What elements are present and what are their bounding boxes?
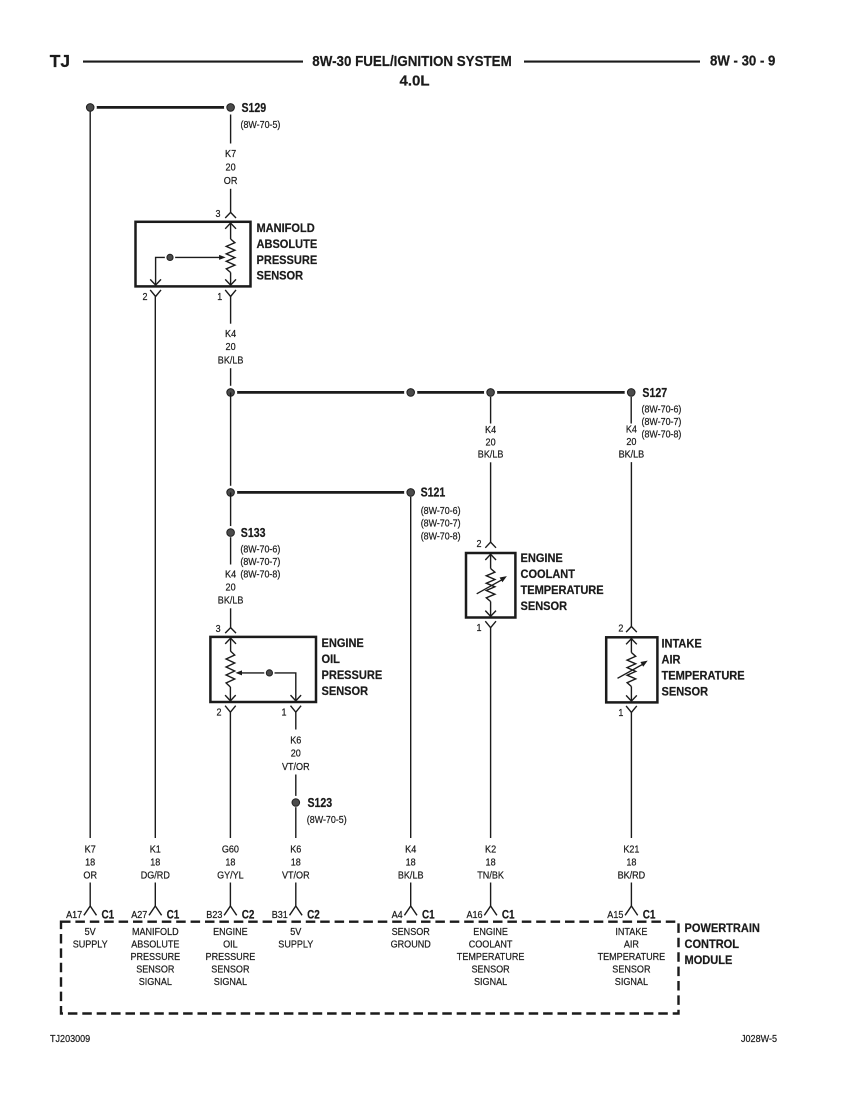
svg-text:(8W-70-8): (8W-70-8) — [421, 531, 461, 542]
svg-text:20: 20 — [226, 162, 236, 173]
svg-text:PRESSURE: PRESSURE — [130, 952, 180, 963]
svg-text:C2: C2 — [242, 907, 255, 921]
svg-text:20: 20 — [226, 583, 236, 594]
pin 2 connector symbol at ECT — [485, 542, 496, 548]
junction dot on EOP wiper — [264, 668, 274, 678]
svg-text:SENSOR: SENSOR — [211, 964, 249, 975]
svg-text:TEMPERATURE: TEMPERATURE — [598, 952, 666, 963]
svg-text:C1: C1 — [422, 907, 435, 921]
svg-text:C1: C1 — [167, 907, 180, 921]
svg-text:INTAKE: INTAKE — [615, 927, 647, 938]
PCM pin A27 C1 — [154, 883, 156, 907]
resistor (potentiometer) inside MAP — [226, 239, 235, 273]
header: left rule — [83, 61, 303, 63]
wire: S127 bus line — [231, 391, 632, 394]
svg-text:A15: A15 — [607, 910, 623, 921]
svg-text:2: 2 — [217, 708, 222, 719]
MAP pin 3 inner chevron — [225, 223, 236, 229]
svg-text:18: 18 — [626, 858, 636, 869]
svg-text:OR: OR — [83, 871, 97, 882]
IAT internal wire pin2 to thermistor — [630, 639, 632, 653]
svg-text:TEMPERATURE: TEMPERATURE — [457, 952, 525, 963]
svg-text:K4: K4 — [626, 425, 637, 436]
svg-text:18: 18 — [291, 858, 301, 869]
svg-text:VT/OR: VT/OR — [282, 871, 310, 882]
PCM pin A17 C1 — [89, 883, 91, 907]
svg-text:(8W-70-7): (8W-70-7) — [421, 519, 461, 530]
svg-text:PRESSURE: PRESSURE — [257, 253, 318, 267]
svg-text:SIGNAL: SIGNAL — [615, 977, 648, 988]
svg-text:C1: C1 — [643, 907, 656, 921]
svg-text:8W - 30 - 9: 8W - 30 - 9 — [710, 54, 775, 70]
node: left end of S129 bus — [84, 101, 97, 114]
PCM pin A4 C1 — [410, 883, 412, 907]
svg-text:GROUND: GROUND — [391, 940, 431, 951]
junction dot on MAP wiper — [165, 252, 175, 262]
svg-text:S123: S123 — [308, 796, 333, 810]
svg-text:(8W-70-7): (8W-70-7) — [240, 557, 280, 568]
svg-text:(8W-70-5): (8W-70-5) — [241, 120, 281, 131]
wire K4 20 BK/LB: MAP pin 1 down to S127 — [230, 297, 232, 324]
MAP pin1 inner chevron — [225, 279, 236, 285]
svg-text:COOLANT: COOLANT — [521, 567, 576, 581]
pin 3 connector symbol at EOP — [225, 628, 236, 634]
ECT pin 2 inner chevron — [485, 554, 496, 560]
svg-text:ABSOLUTE: ABSOLUTE — [131, 940, 179, 951]
svg-text:G60: G60 — [222, 845, 239, 856]
MAP pin 2 outer connector — [150, 290, 161, 297]
splice S121 — [404, 486, 417, 499]
MAP sensor box: manifold absolute pressure sensor — [136, 222, 251, 287]
svg-text:OIL: OIL — [322, 652, 341, 666]
splice S127 — [625, 386, 638, 399]
svg-text:BK/LB: BK/LB — [218, 596, 244, 607]
svg-text:INTAKE: INTAKE — [662, 636, 702, 650]
svg-text:3: 3 — [216, 209, 221, 220]
EOP internal wire resistor to pin2 — [229, 687, 231, 701]
svg-text:1: 1 — [618, 708, 623, 719]
svg-text:20: 20 — [226, 342, 236, 353]
wire: S121 to S133 — [230, 492, 232, 528]
svg-text:A4: A4 — [392, 910, 403, 921]
EOP internal wire pin3 to resistor — [230, 638, 232, 651]
wire K4 18 BK/LB: S121 down to PCM A4 — [410, 497, 412, 838]
node: junction S121 bus left — [224, 486, 237, 499]
svg-text:K7: K7 — [85, 845, 96, 856]
PCM pin A15 C1 — [630, 883, 632, 907]
svg-text:K4: K4 — [225, 570, 236, 581]
svg-text:SENSOR: SENSOR — [612, 964, 650, 975]
svg-text:BK/LB: BK/LB — [478, 450, 504, 461]
ECT pin 1 outer connector — [485, 621, 496, 628]
svg-text:18: 18 — [150, 858, 160, 869]
svg-text:POWERTRAIN: POWERTRAIN — [685, 921, 760, 935]
svg-text:ENGINE: ENGINE — [521, 551, 563, 565]
svg-text:J028W-5: J028W-5 — [741, 1034, 777, 1045]
svg-text:BK/LB: BK/LB — [218, 355, 244, 366]
MAP pin2 inner chevron — [150, 279, 161, 285]
svg-text:GY/YL: GY/YL — [217, 871, 244, 882]
PCM pin B31 C2 — [295, 883, 297, 907]
svg-text:SENSOR: SENSOR — [322, 684, 369, 698]
thermistor inside ECT — [486, 569, 495, 602]
svg-text:BK/RD: BK/RD — [618, 871, 646, 882]
wire K4 20 BK/LB: S127 to S121 — [230, 392, 232, 492]
wire K6: S123 down — [295, 807, 297, 838]
svg-text:(8W-70-8): (8W-70-8) — [642, 429, 682, 440]
svg-text:B23: B23 — [206, 910, 222, 921]
svg-text:S127: S127 — [642, 386, 667, 400]
svg-text:MODULE: MODULE — [685, 953, 733, 967]
svg-text:(8W-70-8): (8W-70-8) — [240, 570, 280, 581]
svg-text:C1: C1 — [502, 907, 515, 921]
wire K6 20 VT/OR: EOP pin 1 to S123 — [295, 712, 297, 729]
svg-text:AIR: AIR — [662, 652, 681, 666]
svg-text:20: 20 — [291, 749, 301, 760]
svg-text:2: 2 — [618, 623, 623, 634]
svg-text:18: 18 — [225, 858, 235, 869]
svg-text:8W-30 FUEL/IGNITION SYSTEM: 8W-30 FUEL/IGNITION SYSTEM — [312, 54, 511, 70]
svg-text:CONTROL: CONTROL — [685, 937, 740, 951]
node: junction S127 bus at ECT wire — [484, 386, 497, 399]
svg-text:SENSOR: SENSOR — [257, 269, 304, 283]
svg-text:C2: C2 — [307, 907, 320, 921]
svg-text:A27: A27 — [131, 910, 147, 921]
svg-text:20: 20 — [486, 437, 496, 448]
svg-text:S129: S129 — [242, 101, 267, 115]
svg-text:SIGNAL: SIGNAL — [474, 977, 507, 988]
svg-text:1: 1 — [477, 623, 482, 634]
wire: S129 bus line — [90, 106, 230, 109]
svg-text:A16: A16 — [467, 910, 483, 921]
pin 2 connector symbol at IAT — [626, 627, 637, 633]
svg-text:AIR: AIR — [624, 940, 639, 951]
MAP internal wire resistor to pin1 — [230, 273, 232, 286]
ECT internal wire thermistor to pin1 — [490, 602, 492, 617]
svg-text:TEMPERATURE: TEMPERATURE — [521, 583, 604, 597]
EOP pin 1 outer connector — [291, 706, 302, 713]
EOP wiper arrowhead — [235, 670, 242, 675]
splice S123 — [289, 796, 302, 809]
svg-text:DG/RD: DG/RD — [141, 871, 170, 882]
svg-text:K6: K6 — [290, 736, 301, 747]
svg-text:BK/LB: BK/LB — [619, 449, 645, 460]
MAP internal wire pin3 to resistor — [230, 223, 232, 239]
svg-text:PRESSURE: PRESSURE — [206, 952, 256, 963]
svg-text:MANIFOLD: MANIFOLD — [132, 927, 179, 938]
svg-text:SENSOR: SENSOR — [472, 964, 510, 975]
ECT sensor box: engine coolant temperature sensor — [466, 553, 515, 618]
EOP wiper line to pin 1 — [242, 673, 296, 701]
MAP pin 1 outer connector — [225, 290, 236, 297]
IAT pin 2 inner chevron — [626, 639, 637, 645]
EOP pin1 inner chevron — [291, 695, 302, 701]
pin 3 connector symbol at MAP — [225, 212, 236, 218]
IAT sensor box: intake air temperature sensor — [606, 637, 657, 702]
wire K4 20 BK/LB: S127 to IAT pin 2 — [630, 397, 632, 424]
svg-text:2: 2 — [143, 292, 148, 303]
svg-text:1: 1 — [282, 708, 287, 719]
EOP pin 3 inner chevron — [225, 638, 236, 644]
wire K2 18 TN/BK: ECT pin 1 down to PCM A16 — [490, 628, 492, 838]
wire K4 20 BK/LB: S127 to ECT pin 2 — [490, 397, 492, 424]
svg-text:18: 18 — [85, 858, 95, 869]
resistor (potentiometer) inside EOP — [226, 651, 235, 687]
svg-text:K4: K4 — [485, 425, 496, 436]
svg-text:VT/OR: VT/OR — [282, 762, 310, 773]
svg-text:SENSOR: SENSOR — [136, 964, 174, 975]
svg-text:K4: K4 — [405, 845, 416, 856]
svg-text:BK/LB: BK/LB — [398, 871, 424, 882]
svg-text:SIGNAL: SIGNAL — [139, 977, 172, 988]
svg-text:K2: K2 — [485, 845, 496, 856]
svg-text:ENGINE: ENGINE — [322, 636, 364, 650]
wire: S121 bus line — [231, 491, 411, 494]
svg-text:SENSOR: SENSOR — [392, 927, 430, 938]
svg-text:18: 18 — [486, 858, 496, 869]
splice S129 — [224, 101, 237, 114]
wire G60 18 GY/YL: EOP pin 2 down to PCM B23 — [229, 712, 231, 838]
svg-text:B31: B31 — [272, 910, 288, 921]
svg-text:4.0L: 4.0L — [399, 73, 429, 90]
node: junction S127 bus at K4 wire — [224, 386, 237, 399]
wire K21 18 BK/RD: IAT pin 1 down to PCM A15 — [630, 712, 632, 838]
svg-text:SUPPLY: SUPPLY — [278, 940, 313, 951]
svg-text:SUPPLY: SUPPLY — [73, 940, 108, 951]
svg-text:K1: K1 — [150, 845, 161, 856]
IAT internal wire thermistor to pin1 — [630, 687, 632, 702]
svg-text:3: 3 — [216, 624, 221, 635]
svg-text:K21: K21 — [623, 845, 639, 856]
svg-text:TN/BK: TN/BK — [477, 871, 504, 882]
MAP wiper line to pin 2 — [156, 257, 220, 285]
thermistor inside IAT — [627, 653, 636, 687]
PCM pin A16 C1 — [490, 883, 492, 907]
svg-text:A17: A17 — [66, 910, 82, 921]
svg-text:TJ203009: TJ203009 — [50, 1034, 90, 1045]
svg-text:K4: K4 — [225, 329, 236, 340]
EOP pin 2 outer connector — [225, 706, 236, 713]
svg-text:5V: 5V — [290, 927, 301, 938]
svg-text:SIGNAL: SIGNAL — [214, 977, 247, 988]
svg-text:5V: 5V — [85, 927, 96, 938]
wire K1 18 DG/RD: MAP pin 2 down to PCM A27 — [154, 297, 156, 839]
svg-text:18: 18 — [406, 858, 416, 869]
svg-text:OIL: OIL — [223, 940, 238, 951]
IAT pin 1 outer connector — [626, 706, 637, 713]
svg-text:C1: C1 — [102, 907, 115, 921]
ECT internal wire pin2 to thermistor — [490, 554, 492, 568]
svg-text:MANIFOLD: MANIFOLD — [257, 221, 315, 235]
IAT thermistor arrow — [618, 664, 644, 679]
svg-text:TJ: TJ — [50, 51, 70, 71]
svg-text:(8W-70-6): (8W-70-6) — [240, 545, 280, 556]
svg-text:PRESSURE: PRESSURE — [322, 668, 383, 682]
svg-text:(8W-70-6): (8W-70-6) — [642, 405, 682, 416]
wire K7 18 OR: S129 down to PCM A17 — [89, 112, 91, 839]
svg-text:K7: K7 — [225, 149, 236, 160]
svg-text:SENSOR: SENSOR — [521, 599, 568, 613]
svg-text:20: 20 — [626, 437, 636, 448]
svg-text:TEMPERATURE: TEMPERATURE — [662, 669, 745, 683]
svg-text:S121: S121 — [421, 485, 446, 499]
svg-text:K6: K6 — [290, 845, 301, 856]
svg-text:COOLANT: COOLANT — [469, 940, 513, 951]
svg-text:1: 1 — [217, 292, 222, 303]
svg-text:S133: S133 — [241, 526, 266, 540]
PCM pin B23 C2 — [229, 883, 231, 907]
svg-text:SENSOR: SENSOR — [662, 685, 709, 699]
svg-text:(8W-70-7): (8W-70-7) — [642, 417, 682, 428]
EOP sensor box: engine oil pressure sensor — [210, 637, 316, 702]
PCM dashed box: powertrain control module — [61, 922, 679, 1014]
IAT pin1 inner chevron — [626, 695, 637, 701]
splice S133 — [224, 526, 237, 539]
svg-text:ENGINE: ENGINE — [473, 927, 508, 938]
wire K4 20 BK/LB: S133 to EOP pin 3 — [230, 537, 232, 564]
svg-text:ABSOLUTE: ABSOLUTE — [257, 237, 318, 251]
svg-text:ENGINE: ENGINE — [213, 927, 248, 938]
node: junction S127 bus at sensor-ground wire — [404, 386, 417, 399]
ECT pin1 inner chevron — [485, 611, 496, 617]
EOP pin2 inner chevron — [225, 695, 236, 701]
svg-text:OR: OR — [224, 176, 238, 187]
svg-text:2: 2 — [477, 539, 482, 550]
ECT thermistor arrow — [477, 579, 503, 594]
header: right rule — [524, 61, 700, 63]
svg-text:(8W-70-6): (8W-70-6) — [421, 506, 461, 517]
wire K7 20 OR: S129 to MAP pin 3 — [230, 115, 232, 144]
MAP wiper arrowhead — [219, 255, 226, 260]
svg-text:(8W-70-5): (8W-70-5) — [307, 815, 347, 826]
